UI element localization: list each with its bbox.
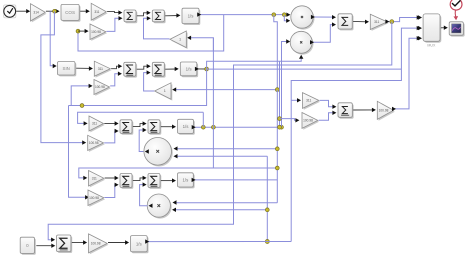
svg-text:1/s: 1/s <box>188 14 195 19</box>
junction on bus at T2 feed <box>275 88 279 92</box>
scope block <box>451 23 465 36</box>
gain G4 <box>96 63 112 78</box>
junction D on distribution row <box>80 104 84 108</box>
wire T1 output to S2 second input <box>144 18 170 39</box>
bus A vertical <box>276 90 278 203</box>
wire S5 to sum S6 <box>133 124 145 127</box>
wire S6 to integrator I3 <box>161 126 175 128</box>
wire S1 to sum S2 <box>137 13 149 16</box>
wire I4 output to bus x278 <box>194 179 277 181</box>
wire bus to C5 input 1 <box>175 148 277 150</box>
integrator I4 <box>179 174 195 188</box>
wire junction E up to row5 loop <box>202 112 204 127</box>
wire branch to P1 second input <box>284 15 289 21</box>
junction middle filler bottom <box>278 125 282 129</box>
sum S1 <box>125 11 137 23</box>
gain G3 <box>91 25 107 41</box>
wire G11 output with junction to mux input1 <box>388 18 419 22</box>
wire G6 to sum S5 <box>104 123 117 125</box>
wire G8 to sum S7 <box>105 177 118 179</box>
svg-text:100.98: 100.98 <box>95 85 105 89</box>
wire I3 output to bus with junctions <box>194 126 281 128</box>
wire node B to G3 <box>78 30 87 32</box>
wire bus267 to C5 input 2 <box>175 155 267 157</box>
wire G1 to COS with junction <box>46 10 58 12</box>
sum S8 <box>149 175 161 189</box>
wire node C up and right to P2 bottom input <box>207 56 302 69</box>
wire COS to gain G2 <box>80 10 88 12</box>
sum S9 <box>58 236 72 253</box>
wire node C down to distribution row <box>69 69 207 106</box>
junction on I1 output 2 <box>282 13 286 17</box>
junction bus267 at C8 feed <box>265 208 269 212</box>
wire clock to gain G1 <box>16 10 29 12</box>
wire G3 output to S1 second input <box>107 18 122 31</box>
wire node A down to SIN <box>50 11 55 66</box>
junction bus267 at bottom line <box>265 240 269 244</box>
wire branch up to gain G5 <box>71 86 91 106</box>
gain G10 <box>90 235 109 254</box>
wire I2 output to node C <box>198 68 207 70</box>
svg-text:311: 311 <box>98 67 103 71</box>
wire T4 output to sum S11 input2 <box>319 113 335 121</box>
junction on I1 output <box>272 13 276 17</box>
svg-text:311: 311 <box>92 122 97 126</box>
feedback gain T1 left-pointing <box>171 32 187 49</box>
constant block <box>22 239 36 255</box>
clock block <box>4 5 16 18</box>
gain G12 <box>379 103 395 121</box>
wire S10 to gain G11 <box>353 20 368 22</box>
wire bus to C8 input 1 <box>174 202 277 204</box>
junction on bus A at circle feed <box>275 147 279 151</box>
svg-text:311: 311 <box>92 176 97 180</box>
junction node A <box>53 9 57 13</box>
junction on bus A at row7 loop <box>275 166 279 170</box>
wire T2 output to S4 second input <box>144 73 155 91</box>
wire S4 to integrator I2 <box>165 68 177 70</box>
junction node C <box>205 67 209 71</box>
integrator I5 <box>132 237 149 253</box>
bus x267 vertical <box>266 156 268 241</box>
wire G5 output to S3 second input <box>110 74 120 86</box>
wire T3 output to sum S11 <box>320 100 335 106</box>
wire G7 output to S5 second input <box>104 131 117 143</box>
COS block <box>62 6 80 22</box>
junction H on G11 output <box>390 20 394 24</box>
integrator I2 <box>182 63 199 77</box>
sum S11 <box>339 104 353 119</box>
wire I1 feedback loop down <box>78 15 224 51</box>
wire G4 to sum S3 <box>111 66 121 69</box>
red check annotation circle <box>450 0 462 10</box>
wire C5 output to S6 second input <box>139 130 145 152</box>
bus B vertical to P2 input <box>282 42 289 128</box>
wire S3 to sum S4 <box>137 66 150 69</box>
wire P2 output to sum S10 input2 <box>313 25 335 43</box>
sum S5 <box>121 121 133 135</box>
wire C8 output to S8 second input <box>140 185 148 206</box>
sum S3 <box>125 64 137 78</box>
bus middle filler vertical <box>279 61 281 127</box>
svg-text:1/s: 1/s <box>182 178 189 183</box>
junction E <box>201 125 205 129</box>
wire P1 output to sum S10 <box>314 16 335 18</box>
junction F <box>212 125 216 129</box>
svg-text:1: 1 <box>164 89 166 93</box>
wire bus267 to C8 input 2 <box>173 209 267 211</box>
integrator I1 <box>183 10 200 25</box>
wire I5 output bottom line <box>148 241 291 243</box>
red arrow to scope <box>454 10 457 17</box>
junction node B feeding gain G3 <box>76 29 80 33</box>
wire G9 output to S7 second input <box>105 185 118 198</box>
wire node A second branch down <box>41 11 85 142</box>
svg-text:COS: COS <box>65 10 75 15</box>
product P1 <box>292 7 314 29</box>
junction to triangle T4 <box>278 117 282 121</box>
svg-text:1: 1 <box>179 38 181 42</box>
wire busA top branch <box>274 15 278 90</box>
junction G on bus x281 <box>280 125 284 129</box>
svg-text:100.98: 100.98 <box>91 30 101 34</box>
long vertical x213 <box>212 38 214 168</box>
wire node C straight right to mux input2 vertical <box>207 68 402 70</box>
wire rotor line to T3 input and mux input2 <box>291 99 299 101</box>
wire bus to gain G8 loop <box>79 168 277 178</box>
wire constant to sum S9 <box>36 245 54 247</box>
wire G2 to sum S1 <box>107 12 121 13</box>
svg-text:314: 314 <box>33 11 39 15</box>
wire to T4 input <box>280 119 299 121</box>
product P2 <box>292 33 314 55</box>
wire S11 to gain G12 <box>353 109 374 111</box>
svg-text:SIN: SIN <box>63 66 70 71</box>
gain G2 <box>93 5 108 22</box>
feedback gain T2 left-pointing <box>156 84 172 100</box>
svg-text:1/s: 1/s <box>183 124 190 129</box>
mux block <box>424 15 441 42</box>
svg-text:1/s: 1/s <box>186 67 193 72</box>
sum S7 <box>121 175 133 189</box>
wire SIN to gain G4 <box>76 67 91 69</box>
wire G10 to integrator I5 <box>108 242 128 244</box>
gain G6 <box>90 117 105 132</box>
integrator I3 <box>179 121 195 135</box>
svg-text:311: 311 <box>374 20 379 24</box>
gain G9 <box>89 191 105 207</box>
wire S9 to gain G10 <box>72 242 86 244</box>
gain G8 <box>90 172 105 188</box>
wire row5 loop feed to gain G6 <box>78 112 204 123</box>
feedback wire from junction H down-left to bottom sum <box>48 22 392 240</box>
gain T3 <box>304 94 320 110</box>
svg-text:100.98: 100.98 <box>89 141 99 145</box>
svg-text:1/s: 1/s <box>136 241 143 246</box>
wire S8 to integrator I4 <box>161 180 175 182</box>
wire S7 to sum S8 <box>133 178 145 181</box>
product circle C8 <box>149 195 172 218</box>
wire bus to T2 input <box>174 89 278 91</box>
svg-text:100.98: 100.98 <box>303 119 313 123</box>
sum S2 <box>154 11 166 23</box>
sum S10 <box>339 15 353 30</box>
svg-text:100.98: 100.98 <box>91 242 101 246</box>
sum S6 <box>149 121 161 135</box>
wire mux to scope <box>441 27 447 29</box>
product circle C5 <box>145 139 173 167</box>
gain T4 <box>303 114 319 130</box>
gain G7 <box>89 137 105 152</box>
sum S4 <box>154 64 166 78</box>
svg-text:311: 311 <box>94 10 99 14</box>
svg-text:311: 311 <box>306 99 311 103</box>
wire S2 to integrator I1 <box>165 15 179 17</box>
wire I1 output long to product P1 with junctions <box>200 14 289 16</box>
svg-text:100.98: 100.98 <box>379 109 389 113</box>
wire branch down to gain G9 <box>69 106 88 198</box>
gain G5 <box>95 81 111 96</box>
wire feedback branch to T1 input <box>189 38 214 51</box>
wire G12 output up to mux input3 <box>395 38 420 109</box>
svg-text:100.98: 100.98 <box>89 196 99 200</box>
SIN block <box>59 63 77 77</box>
gain G11 <box>372 16 389 31</box>
svg-text:MUX: MUX <box>427 44 436 48</box>
gain G1 <box>32 5 47 22</box>
